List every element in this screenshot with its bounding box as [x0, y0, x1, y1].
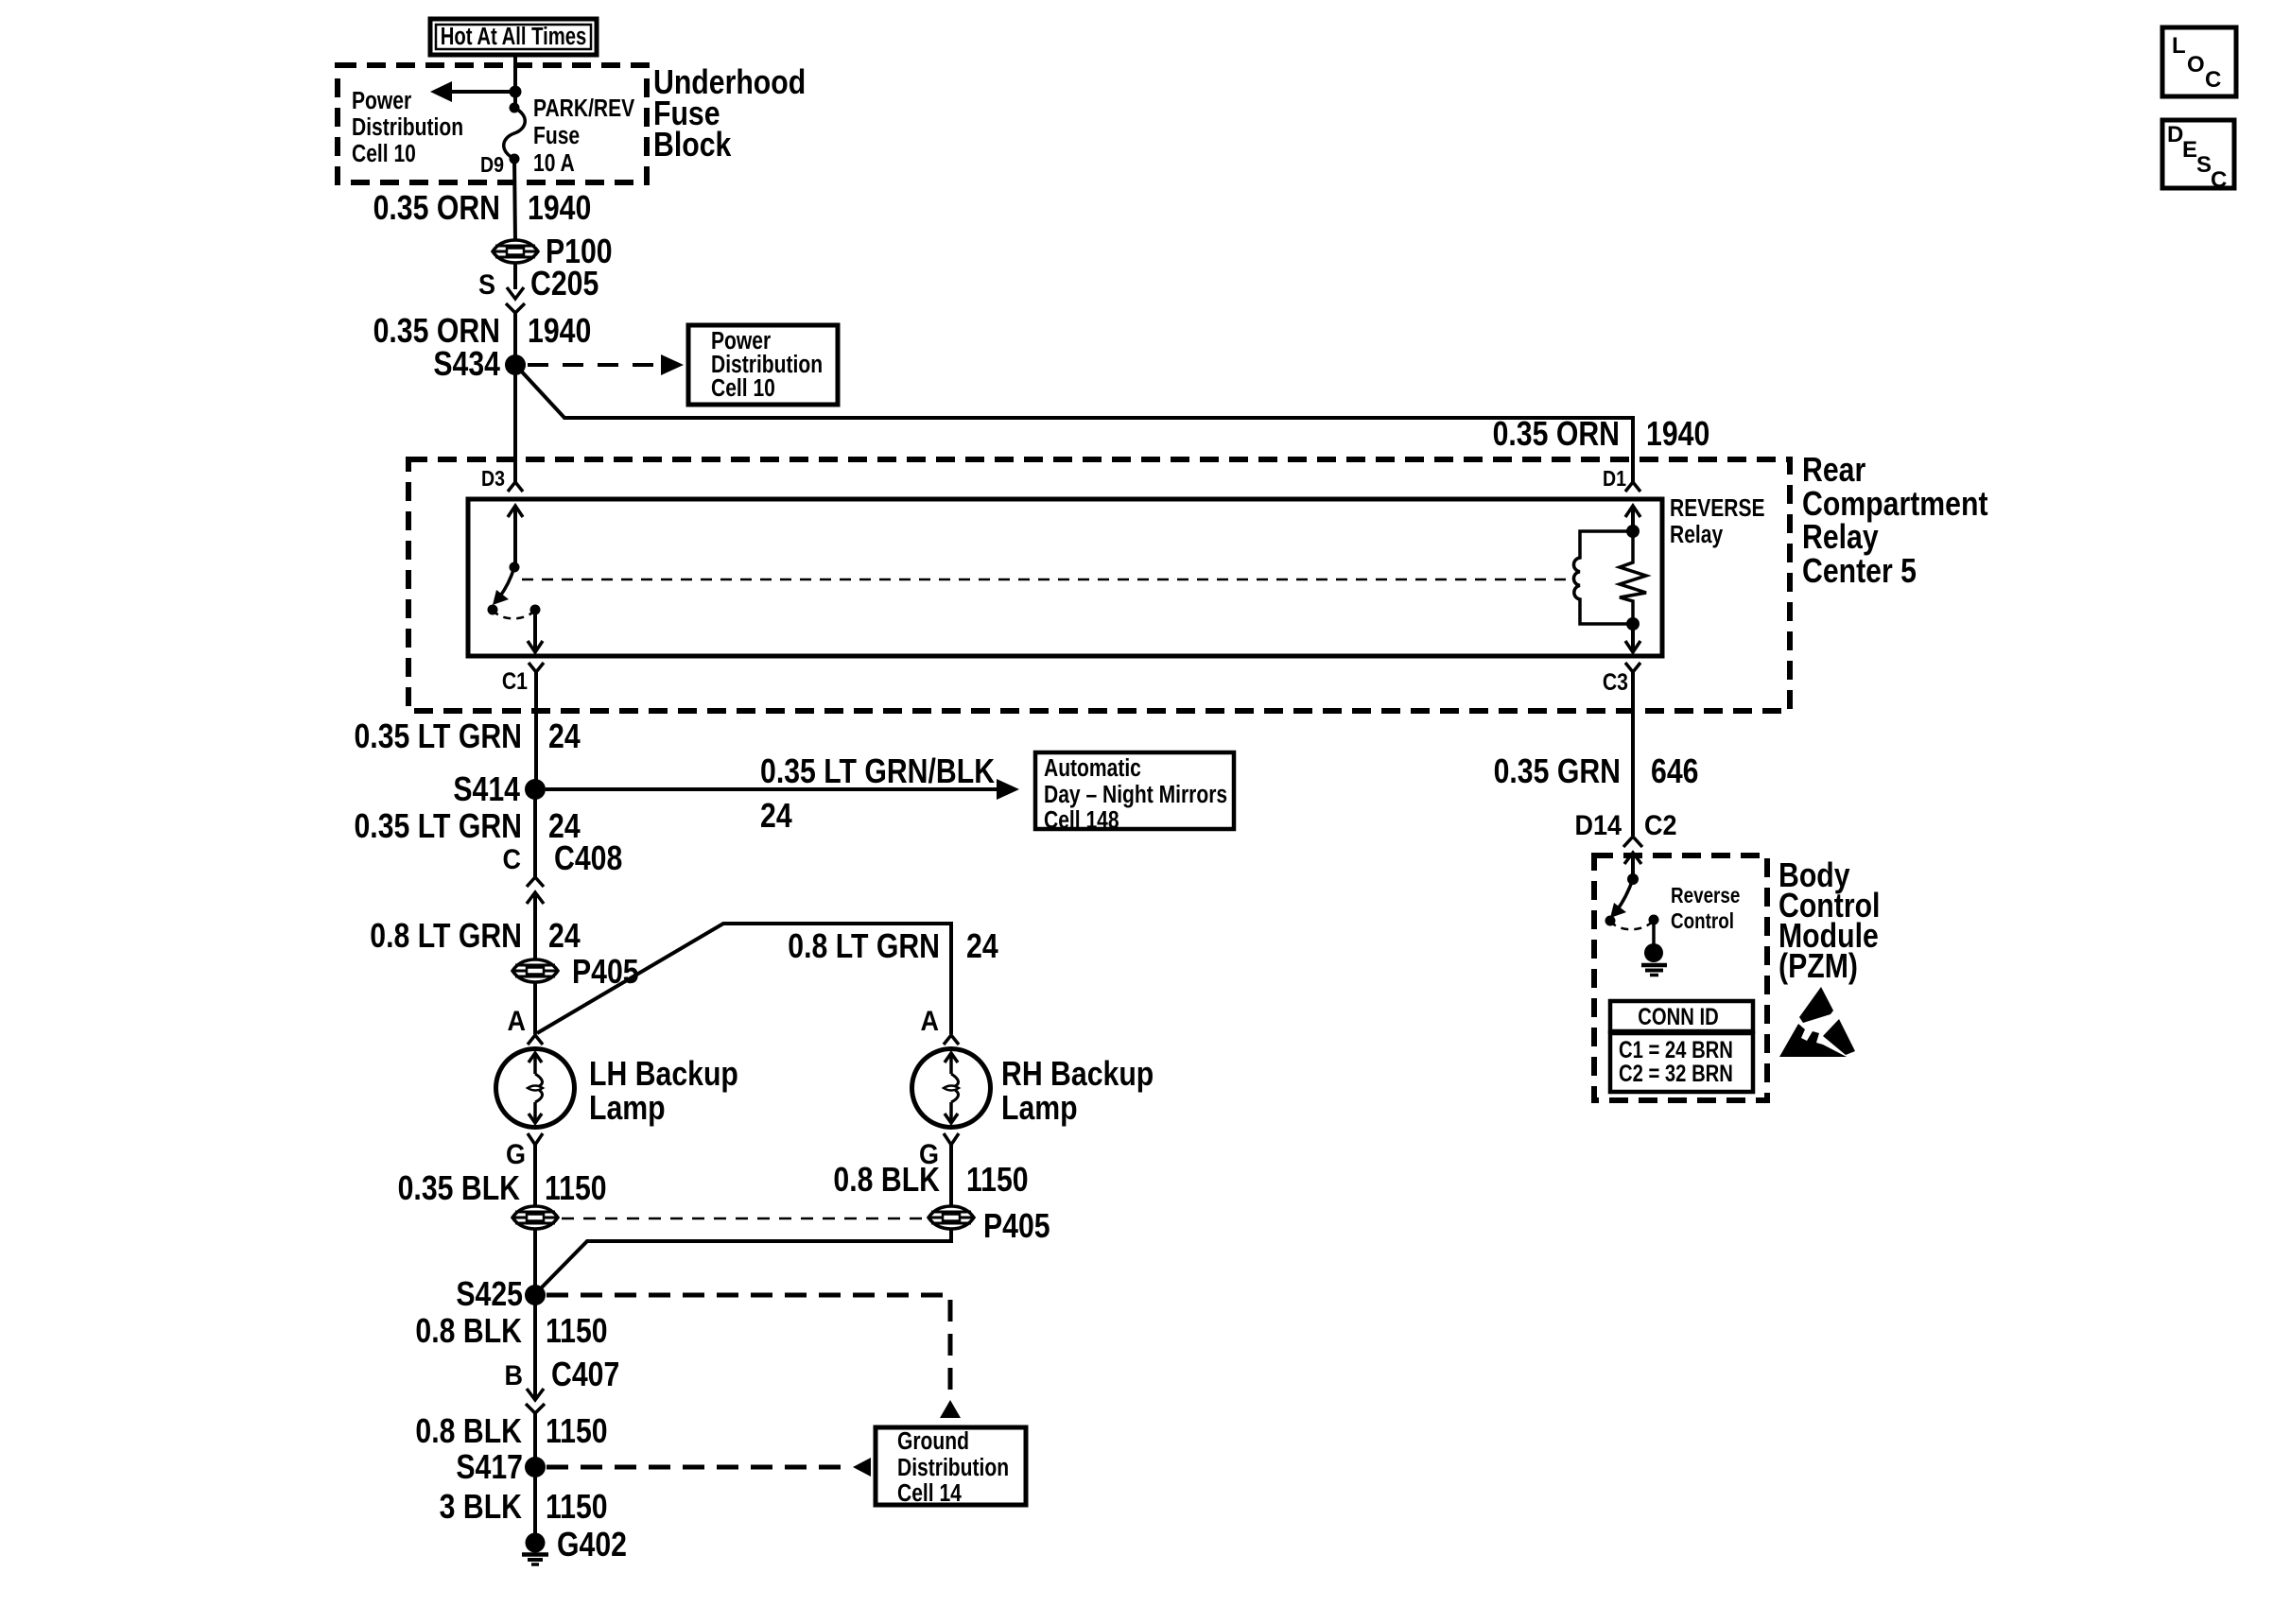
svg-text:S434: S434: [433, 346, 500, 384]
svg-text:S: S: [2196, 152, 2212, 178]
svg-text:S: S: [478, 269, 495, 302]
dashed reference wire S417 to Ground Distribution: [547, 1465, 850, 1470]
dashed throw arc: [493, 610, 535, 618]
label: 0.8 BLK 1150 (RH): [833, 1162, 1028, 1200]
wire: C408 to P405: [533, 892, 537, 960]
svg-text:C: C: [503, 844, 521, 876]
svg-text:Lamp: Lamp: [589, 1090, 666, 1128]
svg-text:1940: 1940: [528, 190, 591, 228]
svg-text:Block: Block: [653, 127, 732, 164]
svg-text:0.8 BLK: 0.8 BLK: [415, 1313, 522, 1351]
svg-text:1150: 1150: [546, 1313, 608, 1351]
svg-text:24: 24: [548, 918, 581, 956]
connector C408 (C): [527, 877, 544, 904]
svg-text:D14: D14: [1575, 810, 1622, 842]
BCM input arrow: [1624, 853, 1641, 879]
wire: S425 to C407: [533, 1295, 537, 1400]
svg-text:1150: 1150: [545, 1170, 607, 1208]
svg-text:Ground: Ground: [897, 1428, 969, 1456]
wire: P405 to S425: [533, 1228, 537, 1295]
relay switch arm: [493, 567, 514, 605]
svg-text:Automatic: Automatic: [1044, 755, 1141, 783]
wire: C1 to S414: [534, 714, 538, 789]
wire: S414 arrow to Automatic Day-Night Mirrors: [546, 779, 1019, 800]
Underhood Fuse Block dashed box: [338, 65, 647, 182]
svg-text:1940: 1940: [1646, 416, 1709, 454]
terminal fork G RH: [944, 1133, 959, 1207]
relay coil output arrow: [1625, 624, 1640, 652]
relay switch NC contact: [488, 605, 498, 615]
splice S417: [525, 1457, 546, 1477]
svg-text:Center 5: Center 5: [1802, 553, 1917, 591]
dashed throw arc: [1610, 920, 1654, 929]
label: 0.8 LT GRN 24: [370, 918, 581, 956]
reference box: Power Distribution Cell 10: [688, 325, 838, 405]
svg-text:A: A: [921, 1006, 939, 1038]
CONN ID table: [1610, 1001, 1753, 1092]
node: coil top: [1626, 525, 1640, 538]
contact left: [1605, 916, 1616, 926]
wire: fuse D9 down to P100: [514, 159, 515, 241]
pin D14 / C2: [1575, 810, 1677, 842]
label: 0.35 LT GRN/BLK 24: [760, 753, 995, 836]
internal ground: [1641, 920, 1667, 976]
arrowhead up to dashed run: [940, 1400, 961, 1418]
label: PARK/REV Fuse 10 A: [533, 95, 634, 178]
svg-text:E: E: [2182, 137, 2197, 163]
wire: C3 down to D14: [1631, 714, 1635, 836]
svg-text:0.8 BLK: 0.8 BLK: [833, 1162, 940, 1200]
dashed actuation line: [522, 579, 1570, 581]
svg-text:REVERSE: REVERSE: [1670, 495, 1765, 523]
svg-text:1150: 1150: [966, 1162, 1029, 1200]
wire: P100 to C205: [513, 263, 517, 289]
label: LH Backup Lamp: [589, 1056, 738, 1128]
Body Control Module dashed box: [1594, 855, 1767, 1100]
LH Backup Lamp: [496, 1049, 575, 1128]
svg-text:S414: S414: [453, 771, 520, 809]
svg-text:1150: 1150: [546, 1489, 608, 1527]
connector fork D1: [1625, 482, 1640, 492]
svg-text:C3: C3: [1603, 668, 1628, 695]
wire: arrow to Power Distribution Cell 10 (left): [444, 90, 515, 94]
svg-text:Control: Control: [1671, 909, 1734, 933]
svg-text:3 BLK: 3 BLK: [440, 1489, 522, 1527]
reverse control switch arm: [1610, 879, 1633, 918]
connector C407 (B): [526, 1389, 545, 1413]
relay resistor: [1620, 531, 1646, 624]
svg-text:A: A: [508, 1006, 526, 1038]
label: Underhood Fuse Block: [653, 64, 806, 164]
grommet P405: [512, 959, 558, 982]
svg-text:CONN ID: CONN ID: [1638, 1003, 1718, 1030]
svg-text:0.35 LT GRN/BLK: 0.35 LT GRN/BLK: [760, 753, 995, 791]
svg-text:D1: D1: [1603, 467, 1626, 492]
svg-text:C407: C407: [551, 1356, 619, 1394]
label: 0.35 ORN 1940 (right): [1493, 416, 1710, 454]
label: 0.35 LT GRN 24: [354, 808, 581, 846]
label: Reverse Control: [1671, 884, 1740, 933]
wire: S434 branch diagonal and feed to D1: [517, 367, 1633, 482]
wire: Hot box to fuse junction: [513, 55, 517, 92]
svg-text:0.35 LT GRN: 0.35 LT GRN: [354, 808, 522, 846]
svg-text:PARK/REV: PARK/REV: [533, 95, 634, 123]
svg-text:P405: P405: [572, 954, 639, 992]
svg-text:646: 646: [1651, 753, 1698, 791]
svg-text:0.8 BLK: 0.8 BLK: [415, 1413, 522, 1451]
reverse control switch pivot: [1627, 873, 1639, 885]
svg-text:Cell 148: Cell 148: [1044, 807, 1119, 835]
grommet P405 lower-right: [928, 1206, 974, 1229]
svg-text:LH Backup: LH Backup: [589, 1056, 738, 1094]
svg-text:C1: C1: [502, 667, 528, 694]
wire: C205 to S434: [513, 313, 517, 365]
svg-text:S425: S425: [456, 1276, 523, 1314]
svg-text:O: O: [2187, 52, 2205, 78]
label: Power Distribution Cell 10 (in fuse block): [352, 88, 463, 168]
svg-text:C: C: [2211, 167, 2227, 193]
label: 0.35 LT GRN 24: [354, 718, 581, 756]
svg-text:Lamp: Lamp: [1001, 1090, 1078, 1128]
relay switch output arrow: [528, 610, 543, 652]
svg-text:Hot At All Times: Hot At All Times: [441, 23, 587, 50]
svg-text:0.35 ORN: 0.35 ORN: [1493, 416, 1620, 454]
connector fork D3: [508, 482, 523, 492]
svg-text:0.35 LT GRN: 0.35 LT GRN: [354, 718, 522, 756]
svg-text:D: D: [2167, 122, 2183, 147]
reference box: Automatic Day-Night Mirrors Cell 148: [1035, 752, 1234, 835]
label: Rear Compartment Relay Center 5: [1802, 452, 1988, 591]
dashed reference wire S434 to Power Distribution box: [528, 363, 664, 367]
contact right: [1649, 915, 1659, 925]
connector fork C1: [529, 663, 544, 718]
relay coil branch input arrow: [1625, 506, 1640, 531]
node: coil bottom: [1626, 617, 1640, 631]
terminal fork A LH: [528, 1035, 543, 1045]
svg-text:Rear: Rear: [1802, 452, 1865, 490]
relay switch pivot: [510, 562, 520, 573]
svg-text:C205: C205: [530, 266, 599, 303]
svg-text:24: 24: [966, 928, 998, 966]
relay switch NO contact: [530, 605, 541, 615]
connector C2 fork: [1623, 837, 1642, 847]
svg-text:C2: C2: [1644, 810, 1676, 842]
svg-text:Reverse: Reverse: [1671, 884, 1740, 907]
LOC index box: [2162, 27, 2236, 96]
RH Backup Lamp: [912, 1049, 991, 1128]
terminal fork G LH: [528, 1133, 543, 1145]
svg-text:Relay: Relay: [1802, 519, 1879, 557]
splice S434: [505, 354, 526, 375]
grommet P405 lower-left: [512, 1206, 558, 1229]
svg-text:D3: D3: [481, 467, 505, 492]
svg-text:Fuse: Fuse: [533, 123, 580, 150]
connector C205 (S): [506, 287, 525, 313]
wire: P405 to LH lamp A: [533, 981, 537, 1034]
wire: S417 to G402: [533, 1467, 537, 1534]
svg-text:0.35 BLK: 0.35 BLK: [398, 1170, 520, 1208]
label: 0.35 ORN 1940: [373, 190, 592, 228]
svg-text:Cell 10: Cell 10: [711, 375, 775, 403]
ground G402: [522, 1533, 548, 1565]
power flag box: Hot At All Times: [430, 19, 597, 55]
svg-text:P405: P405: [983, 1208, 1050, 1246]
splice S414: [525, 779, 546, 800]
label: 0.8 LT GRN 24 (RH): [788, 928, 998, 966]
svg-text:10 A: 10 A: [533, 150, 575, 178]
reference box: Ground Distribution Cell 14: [876, 1427, 1026, 1508]
svg-text:G402: G402: [557, 1527, 627, 1564]
fuse PARK/REV 10A: [504, 92, 526, 164]
svg-text:C408: C408: [554, 840, 622, 878]
relay switch input arrow: [508, 506, 523, 567]
svg-text:Cell 10: Cell 10: [352, 141, 416, 168]
svg-text:24: 24: [760, 798, 792, 836]
svg-text:24: 24: [548, 718, 581, 756]
svg-text:S417: S417: [456, 1449, 523, 1487]
ESD symbol: [1779, 987, 1855, 1057]
wire: LH lamp G down to P405: [533, 1143, 537, 1206]
svg-text:0.8 LT GRN: 0.8 LT GRN: [788, 928, 940, 966]
svg-text:B: B: [505, 1360, 523, 1392]
svg-text:Distribution: Distribution: [897, 1455, 1009, 1482]
label: 0.8 BLK 1150: [415, 1413, 607, 1451]
label: Body Control Module (PZM): [1778, 857, 1880, 986]
wire: S434 down to D3: [513, 365, 517, 482]
label: REVERSE Relay: [1670, 495, 1765, 549]
label: 3 BLK 1150: [440, 1489, 608, 1527]
svg-text:Day – Night Mirrors: Day – Night Mirrors: [1044, 782, 1227, 809]
grommet P100: [493, 240, 538, 263]
relay box: [468, 499, 1662, 656]
svg-text:(PZM): (PZM): [1778, 948, 1858, 986]
svg-text:1150: 1150: [546, 1413, 608, 1451]
label: 0.35 ORN 1940: [373, 313, 592, 351]
arrowhead left: [853, 1458, 871, 1477]
connector fork C3: [1625, 663, 1640, 718]
DESC index box: [2162, 120, 2234, 193]
svg-text:0.8 LT GRN: 0.8 LT GRN: [370, 918, 522, 956]
svg-text:Power: Power: [352, 88, 411, 115]
dashed harness tie between P405 grommets: [562, 1218, 925, 1220]
label: 0.35 GRN 646: [1494, 753, 1699, 791]
wire: C407 to S417: [533, 1413, 537, 1467]
svg-text:1940: 1940: [528, 313, 591, 351]
svg-text:0.35 GRN: 0.35 GRN: [1494, 753, 1621, 791]
svg-text:G: G: [506, 1139, 526, 1171]
svg-text:C2 = 32 BRN: C2 = 32 BRN: [1619, 1060, 1733, 1087]
svg-text:D9: D9: [480, 153, 504, 178]
node: fuse feed junction: [510, 86, 522, 98]
splice S425: [525, 1285, 546, 1305]
Rear Compartment Relay Center 5 dashed box: [408, 459, 1790, 711]
svg-text:Relay: Relay: [1670, 522, 1724, 549]
wire: RH lamp ground run to S425: [535, 1228, 951, 1294]
wire: branch to RH lamp: [537, 924, 951, 1034]
svg-text:0.35 ORN: 0.35 ORN: [373, 190, 500, 228]
svg-text:L: L: [2172, 33, 2186, 59]
relay coil: [1573, 531, 1633, 624]
dashed reference wire S425 to Ground Distribution: [547, 1295, 950, 1397]
svg-text:RH Backup: RH Backup: [1001, 1056, 1154, 1094]
terminal fork A RH: [944, 1035, 959, 1045]
svg-text:C: C: [2205, 67, 2221, 93]
label: 0.35 BLK 1150: [398, 1170, 607, 1208]
label: 0.8 BLK 1150: [415, 1313, 607, 1351]
svg-text:Distribution: Distribution: [352, 114, 463, 142]
label: RH Backup Lamp: [1001, 1056, 1154, 1128]
wire: S414 to C408: [533, 789, 537, 877]
svg-text:Cell 14: Cell 14: [897, 1480, 963, 1508]
